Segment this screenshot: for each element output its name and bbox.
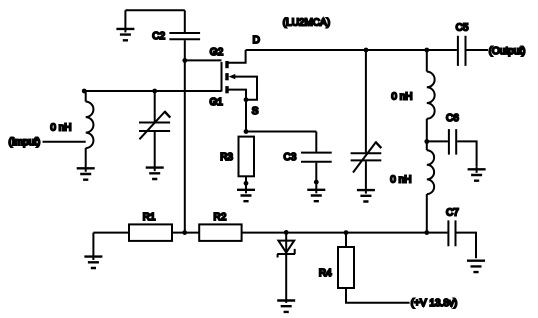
- capacitor C7: [448, 220, 476, 258]
- ground (C7): [467, 261, 485, 272]
- svg-text:(+V 13.8v): (+V 13.8v): [411, 298, 457, 309]
- wire: bottom-left drop: [92, 233, 94, 260]
- variable capacitor VC1: [139, 91, 170, 171]
- svg-text:0 nH: 0 nH: [50, 123, 71, 134]
- svg-text:C7: C7: [446, 208, 459, 219]
- svg-text:R4: R4: [319, 268, 332, 279]
- node: zener / bottom bus: [284, 230, 289, 235]
- transistor Q1 dual-gate MOSFET: [222, 50, 258, 100]
- resistor R2: [199, 224, 241, 241]
- node: C2 / G2 / bias junction: [182, 58, 187, 63]
- svg-text:R1: R1: [143, 212, 156, 223]
- svg-text:C5: C5: [456, 22, 469, 33]
- svg-text:S: S: [252, 106, 259, 117]
- ground (bottom-left): [84, 257, 102, 268]
- svg-text:R2: R2: [214, 212, 227, 223]
- channel bar source: [225, 86, 228, 93]
- inductor L3 0 nH: [427, 142, 434, 233]
- wire: VC2 drop: [365, 50, 367, 152]
- node: top bus / L2: [424, 48, 429, 53]
- inductor L2 0 nH: [427, 50, 435, 142]
- ground (VC1): [146, 168, 164, 179]
- channel bar drain: [225, 61, 228, 68]
- capacitor C6: [427, 129, 477, 167]
- node: tank / VC1: [152, 89, 157, 94]
- inductor L1 0 nH: [86, 91, 94, 172]
- bulk lead with arrow: [234, 77, 258, 100]
- resistor R3: [239, 137, 255, 184]
- svg-text:G1: G1: [210, 97, 224, 108]
- ground (C6): [468, 167, 486, 181]
- node: C3 bottom: [314, 180, 319, 185]
- wire: input tap: [43, 141, 86, 143]
- wire: tee to C3: [246, 131, 316, 133]
- node: tank top-left: [82, 89, 87, 94]
- capacitor C2: [169, 10, 200, 60]
- zener diode D1: [277, 232, 295, 303]
- svg-text:0 nH: 0 nH: [390, 175, 411, 186]
- svg-text:(Output): (Output): [489, 46, 526, 57]
- wire: main left bus (tank to G1): [84, 90, 221, 92]
- svg-text:D: D: [253, 35, 260, 46]
- svg-text:C2: C2: [152, 31, 165, 42]
- node: source junction: [244, 97, 249, 102]
- svg-text:C6: C6: [446, 113, 459, 124]
- node: top bus / VC2: [364, 48, 369, 53]
- gate line: [221, 62, 223, 92]
- source lead: [229, 90, 247, 100]
- channel bar bulk: [225, 73, 228, 80]
- ground (R3): [237, 183, 255, 201]
- ground (L1): [77, 168, 95, 179]
- resistor R1: [129, 224, 172, 241]
- wire: junction to G2: [185, 59, 222, 61]
- wire: bottom bus: [93, 232, 447, 234]
- wire: top-left horizontal (ground to C2 top): [125, 9, 184, 11]
- node: R4 / bottom bus: [344, 230, 349, 235]
- svg-text:(Imput): (Imput): [9, 137, 41, 148]
- node: R3/C3 tee: [244, 129, 249, 134]
- ground (zener): [277, 301, 295, 312]
- ground (C3): [307, 182, 325, 201]
- svg-text:0 nH: 0 nH: [391, 92, 412, 103]
- resistor R4: [338, 233, 410, 303]
- drain lead: [229, 50, 246, 63]
- node: L3 / C7 / bottom bus: [424, 230, 429, 235]
- wire: bias vertical line (junction down to R1/R2): [184, 60, 186, 232]
- node: L2 / C6 junction: [424, 139, 429, 144]
- svg-text:G2: G2: [210, 47, 224, 58]
- svg-text:(LU2MCA): (LU2MCA): [283, 18, 330, 29]
- node: R3 bottom: [244, 181, 249, 186]
- svg-text:R3: R3: [220, 152, 233, 163]
- variable capacitor VC2: [351, 142, 382, 194]
- ground (VC2): [357, 190, 375, 201]
- wire: source down to R3/C3 tee: [245, 100, 247, 132]
- svg-text:C3: C3: [284, 152, 297, 163]
- capacitor C5: [458, 36, 488, 66]
- wire: top bus (drain to C5): [246, 49, 457, 51]
- node: bias / bottom bus: [182, 230, 187, 235]
- capacitor C3: [301, 132, 332, 183]
- ground (top-left, C2 top plate): [116, 10, 134, 40]
